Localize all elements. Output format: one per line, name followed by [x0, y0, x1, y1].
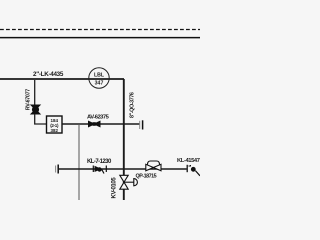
svg-text:8"-QO-3776: 8"-QO-3776 [129, 92, 135, 118]
svg-text:LBL: LBL [94, 72, 105, 78]
pipe 2"-LK-4435 [0, 78, 124, 80]
line break symbol (double bar) left [56, 165, 59, 174]
wire box to capacitor end [62, 123, 140, 125]
svg-text:382: 382 [50, 128, 58, 133]
svg-text:KV-0105: KV-0105 [111, 177, 117, 199]
check valve KL-7-1230 [93, 166, 106, 174]
border line [0, 37, 200, 39]
control valve KV-0105 [120, 175, 138, 189]
instrument bubble LBL 347 [89, 68, 109, 88]
wire branch down at x79 [78, 124, 80, 200]
hose connection end [187, 165, 200, 176]
svg-text:KL-7-1230: KL-7-1230 [87, 159, 112, 165]
globe valve QP-18715 [146, 161, 161, 171]
vertical pipe 8"-QO-3776 [123, 79, 125, 200]
valve RV-67077 (filled) [31, 105, 40, 114]
svg-text:QP-18715: QP-18715 [136, 173, 157, 179]
svg-text:RV-67077: RV-67077 [25, 89, 31, 110]
valve AV-62375 (filled) [88, 121, 101, 128]
interlock box 184/(2-1)/382 [47, 116, 63, 133]
wire elbow from valve to box [35, 114, 47, 124]
wire branch down from pipe [34, 80, 36, 105]
wire lower header [58, 168, 186, 170]
svg-text:AV-62375: AV-62375 [87, 114, 110, 120]
svg-text:KL-41547: KL-41547 [177, 158, 200, 164]
match line (dashed boundary) [0, 29, 200, 31]
svg-text:347: 347 [95, 81, 104, 87]
line break symbol (double bar) right [140, 120, 143, 129]
svg-text:2"-LK-4435: 2"-LK-4435 [33, 71, 64, 78]
